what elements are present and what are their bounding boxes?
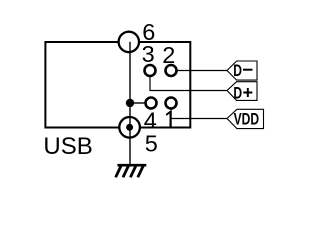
- svg-text:VDD: VDD: [234, 111, 259, 129]
- ground hatch stroke 3: [130, 166, 136, 178]
- svg-text:2: 2: [162, 42, 175, 68]
- wire GND main vertical: [129, 42, 131, 165]
- svg-text:USB: USB: [43, 133, 92, 160]
- net flag VDD outline: [227, 109, 264, 128]
- junction GND node: [126, 99, 134, 107]
- pin 4 circle: [146, 98, 157, 109]
- net flag D+ plus sign vertical: [247, 88, 249, 97]
- wire junction to pin 4: [130, 102, 145, 104]
- pin 3 circle: [145, 65, 156, 76]
- ground hatch stroke 4: [138, 166, 144, 178]
- USB connector J1 body: [45, 42, 190, 128]
- pin number 1 flag stroke: [166, 112, 170, 115]
- ground hatch stroke 2: [123, 166, 129, 178]
- net flag D- outline: [227, 61, 257, 80]
- pin 5 shield pad circle: [119, 117, 140, 138]
- pin number 1 stem stroke: [170, 111, 172, 127]
- net flag D- minus sign: [243, 69, 253, 71]
- svg-text:D: D: [233, 62, 242, 80]
- wire D- net: [178, 70, 228, 72]
- wire VDD net: [171, 110, 227, 119]
- pin 5 center dot: [126, 124, 133, 131]
- net flag D+ plus sign horizontal: [243, 92, 252, 94]
- svg-text:3: 3: [142, 41, 155, 67]
- ground hatch stroke 1: [116, 166, 122, 178]
- svg-text:D: D: [233, 85, 242, 103]
- ground symbol bar: [117, 164, 146, 167]
- pin 6 shield pad circle: [119, 32, 139, 52]
- net flag D+ outline: [227, 82, 257, 101]
- svg-text:5: 5: [145, 130, 158, 156]
- wire D+ net: [150, 77, 227, 91]
- pin 1 circle: [166, 98, 177, 109]
- pin 2 circle: [166, 65, 177, 76]
